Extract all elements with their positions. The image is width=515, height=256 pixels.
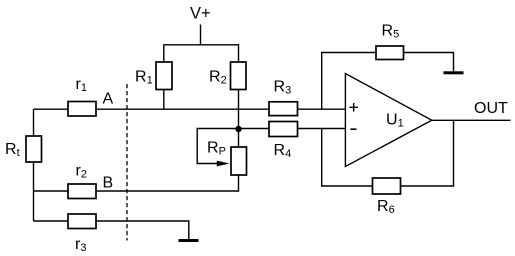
resistor R4 — [269, 122, 298, 137]
resistor R5 — [376, 46, 404, 60]
svg-text:R5: R5 — [382, 23, 400, 41]
wire RP wiper — [197, 129, 238, 164]
svg-text:r3: r3 — [75, 236, 86, 254]
svg-text:r1: r1 — [76, 76, 87, 94]
op-amp plus input mark — [350, 103, 359, 112]
svg-text:r2: r2 — [76, 163, 87, 181]
op-amp U1 — [345, 74, 431, 167]
potentiometer RP — [231, 147, 247, 175]
resistor Rt — [26, 136, 42, 162]
wiper arrowhead — [217, 161, 230, 167]
wire R5 to ground — [404, 53, 454, 72]
svg-text:V+: V+ — [190, 5, 211, 23]
junction node dot — [235, 126, 241, 132]
wire minus node to R6 — [322, 129, 373, 187]
svg-text:RP: RP — [207, 140, 226, 158]
resistor R2 — [231, 62, 247, 90]
svg-text:R3: R3 — [274, 79, 292, 97]
ground (left) — [179, 239, 199, 242]
svg-text:R1: R1 — [135, 69, 153, 87]
resistor r1 — [68, 102, 96, 117]
resistor R3 — [269, 102, 298, 116]
svg-text:A: A — [103, 91, 114, 108]
svg-text:R6: R6 — [377, 198, 395, 216]
resistor R1 — [156, 62, 172, 90]
svg-text:B: B — [103, 175, 114, 192]
op-amp minus input mark — [351, 128, 357, 130]
resistor R6 — [373, 178, 401, 194]
wire node B row — [34, 175, 239, 191]
resistor r3 — [68, 214, 96, 229]
svg-text:R2: R2 — [209, 69, 227, 87]
resistor r2 — [68, 184, 96, 199]
svg-text:Rt: Rt — [5, 141, 20, 159]
wire R1 bottom stem — [163, 90, 165, 110]
svg-text:R4: R4 — [274, 142, 292, 160]
wire R6 to output — [401, 120, 454, 186]
dashed boundary line — [126, 84, 128, 241]
wire node A row — [34, 108, 346, 110]
wire supply rail — [164, 45, 239, 62]
svg-text:OUT: OUT — [474, 100, 508, 117]
wire output row — [432, 119, 511, 121]
wire plus node to R5 — [322, 53, 376, 110]
wire minus row — [239, 128, 346, 130]
wire RP top stem — [238, 129, 240, 148]
wire V+ stem — [200, 25, 202, 45]
ground (right) — [444, 71, 464, 74]
wire R2 bottom stem — [238, 90, 240, 129]
wire r3 row to ground — [34, 221, 189, 240]
wire left rail — [33, 109, 35, 221]
